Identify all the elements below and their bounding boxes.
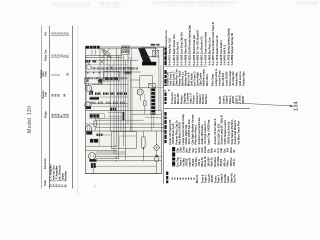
- speaker terminal box: [140, 76, 153, 88]
- svg-text:10.: 10.: [232, 149, 236, 153]
- svg-text:5-A-8767 Amp Det Coil: 5-A-8767 Amp Det Coil: [168, 38, 172, 66]
- audio coupling box: [111, 132, 136, 149]
- speaker frame bar (black): [142, 62, 156, 66]
- svg-text:Function: Function: [43, 158, 47, 169]
- resistor R2: [144, 101, 147, 106]
- svg-text:Pilot Strip: Pilot Strip: [211, 74, 215, 86]
- parts table header COILS: [164, 93, 166, 96]
- wire: [86, 130, 164, 132]
- bus wire: [90, 96, 128, 98]
- svg-text:.00025: .00025: [241, 96, 245, 104]
- svg-text:9-A-5552 10. Vol .001 Board 8: 9-A-5552 10. Vol .001 Board 8: [195, 30, 199, 66]
- wire: [113, 60, 115, 154]
- terminal block: [148, 84, 155, 88]
- bus wires: [92, 103, 128, 105]
- wire: [108, 116, 124, 118]
- wire: [86, 64, 129, 66]
- faint print-through smudge top-left: [53, 1, 319, 7]
- svg-text:34.: 34.: [66, 54, 70, 58]
- wire: [95, 50, 97, 56]
- tuning capacitor C1 arrow: [100, 60, 104, 64]
- tube V4 socket (black): [91, 163, 96, 168]
- field coil: [153, 50, 159, 57]
- short bus wires: [108, 111, 124, 113]
- power transformer T1 (black segmented winding): [150, 88, 155, 115]
- schematic top border: [85, 46, 163, 48]
- wire: [151, 115, 153, 131]
- index arrow to page number: [233, 103, 292, 106]
- svg-text:8-A-3987 Screw Drum Cond Trans: 8-A-3987 Screw Drum Cond Trans B: [211, 22, 215, 66]
- wire: [128, 57, 132, 59]
- svg-text:Grid Low Lo: Grid Low Lo: [238, 71, 242, 86]
- parts table footer header: [166, 172, 168, 176]
- svg-text:Grid: Grid: [45, 92, 47, 97]
- svg-text:Lead 25,000: Lead 25,000: [224, 71, 228, 86]
- svg-text:Res 25,000: Res 25,000: [221, 72, 225, 86]
- parts list divider rule: [163, 46, 165, 184]
- wire: [103, 49, 105, 83]
- grid cap leads: [97, 80, 99, 84]
- svg-text:Watt Watt .: Watt Watt .: [205, 73, 209, 86]
- bus wire: [93, 165, 156, 167]
- wire: [96, 160, 162, 162]
- svg-text:Model 130: Model 130: [27, 106, 33, 133]
- svg-text:Input Clip .00025 Inp: Input Clip .00025 Inp: [206, 119, 210, 144]
- svg-text:9-A-7428 Spring Spring Spring: 9-A-7428 Spring Spring Spring: [226, 28, 230, 65]
- wire: [96, 155, 162, 157]
- wire: [120, 49, 122, 131]
- wire: [145, 117, 162, 119]
- svg-text:2-A-9088 Ohm Grid 50: 2-A-9088 Ohm Grid 50: [183, 38, 187, 65]
- svg-text:5.0: 5.0: [66, 32, 70, 36]
- footer dashes: [172, 178, 173, 180]
- svg-text:Assem Trans: Assem Trans: [217, 70, 221, 86]
- wire: [109, 55, 111, 131]
- speaker label marks: [151, 44, 156, 46]
- svg-text:.001 K.: .001 K.: [232, 158, 236, 167]
- svg-text:9-A-5561 1st Bracket Cli: 9-A-5561 1st Bracket Cli: [199, 36, 203, 65]
- wire inner left: [86, 55, 88, 110]
- schematic left border wire: [85, 47, 87, 174]
- speaker assembly enclosure: [132, 47, 164, 87]
- bus wires mid: [96, 119, 144, 121]
- output transformer T2: [141, 48, 156, 57]
- svg-text:Mica 8.: Mica 8.: [195, 174, 199, 183]
- wire: [129, 60, 131, 131]
- tube V1 (24) R.F. amplifier: [85, 85, 91, 91]
- svg-text:Volts: Volts: [45, 71, 48, 77]
- svg-text:Plate Cur.: Plate Cur.: [45, 49, 48, 61]
- ganged condenser box: [84, 78, 102, 84]
- svg-text:2-A-8889 Output Spring Oh: 2-A-8889 Output Spring Oh: [230, 32, 234, 65]
- antenna label box (black): [86, 46, 100, 49]
- svg-text:1-A-6072 Input Power Osc: 1-A-6072 Input Power Osc: [172, 33, 176, 65]
- svg-text:3-A-9445 Low Audio I: 3-A-9445 Low Audio I: [219, 40, 223, 66]
- svg-text:Rectifier: Rectifier: [64, 171, 68, 181]
- svg-text:Plate: Plate: [44, 111, 48, 118]
- svg-text:Belt Bel: Belt Bel: [204, 94, 208, 104]
- svg-text:190: 190: [66, 113, 70, 118]
- svg-text:Lamp Lamp G: Lamp Lamp G: [214, 69, 218, 86]
- antenna coupling loop L1: [102, 49, 112, 58]
- coil L4 (black): [90, 97, 100, 99]
- wire: [85, 71, 141, 73]
- speaker cone (dark): [138, 48, 151, 63]
- parts table header RESISTORS: [164, 70, 166, 74]
- wire: [96, 127, 164, 129]
- wire: [86, 150, 117, 152]
- wire stub left of tables: [160, 152, 162, 172]
- transformer leads: [158, 57, 160, 111]
- rf bus wire: [86, 59, 138, 61]
- resistor R3: [142, 137, 145, 147]
- wire: [106, 55, 108, 83]
- bus wires lower left: [86, 145, 117, 147]
- i.f. transformer box T3: [104, 71, 120, 81]
- svg-text:47: 47: [94, 184, 98, 188]
- coil label (dark): [97, 134, 103, 136]
- rf bus wire: [86, 57, 123, 59]
- wire: [96, 117, 124, 119]
- wire: [96, 134, 111, 136]
- terminal bar: [123, 112, 125, 120]
- svg-text:Pointer Mic: Pointer Mic: [235, 72, 239, 86]
- tube V3 (35) I.F. amplifier: [85, 126, 92, 133]
- wire: [153, 115, 155, 128]
- bus wires right: [130, 113, 161, 115]
- tube V2 (24) detector-oscillator: [85, 102, 91, 108]
- svg-text:7-A-4780 Trans Assem Tube: 7-A-4780 Trans Assem Tube: [203, 31, 207, 65]
- oscillator coil L5 (black): [89, 114, 104, 118]
- wire: [116, 49, 118, 147]
- wire: [96, 153, 126, 155]
- schematic paper tint: [85, 46, 164, 174]
- svg-text:8-A-8474 Coil .01 Assem Low: 8-A-8474 Coil .01 Assem Low: [164, 30, 168, 65]
- rf bus wire: [86, 54, 123, 56]
- parts table header CONDENSERS: [164, 48, 166, 51]
- svg-text:Tube: Tube: [43, 179, 47, 186]
- svg-text:3-A-4800 Det Plate Con: 3-A-4800 Det Plate Con: [207, 37, 211, 65]
- wire right edge: [161, 111, 163, 174]
- svg-text:5-A-3119 25,000 Knob Spring Sp: 5-A-3119 25,000 Knob Spring Spri: [187, 25, 191, 66]
- tuning capacitor C2 arrow: [109, 66, 113, 70]
- wiring text row (light dashes): [91, 102, 96, 104]
- faint page fold line: [77, 26, 79, 196]
- parts table header (black) block E: [172, 147, 175, 151]
- wire: [86, 123, 164, 125]
- schematic bottom border: [85, 173, 162, 175]
- svg-text:Fil.: Fil.: [44, 31, 48, 35]
- wire: [130, 79, 139, 81]
- dial lamp P1: [85, 60, 90, 63]
- svg-text:9-A-7049 Audio Power W: 9-A-7049 Audio Power W: [215, 35, 219, 66]
- coil winding row L2: [91, 67, 93, 69]
- parts list section rule: [164, 65, 207, 67]
- wire: [131, 88, 133, 131]
- svg-text:134: 134: [294, 101, 300, 111]
- tube V5 (24) 2nd detector: [137, 89, 143, 95]
- junction column: [116, 146, 117, 147]
- bus wire: [92, 84, 128, 86]
- trimmer box: [124, 68, 131, 75]
- wire: [125, 60, 127, 161]
- wire: [160, 65, 162, 110]
- wiring label (dark): [111, 108, 117, 111]
- wire: [127, 49, 129, 124]
- svg-text:1-A-8481 465 8. 5: 1-A-8481 465 8. 5: [223, 44, 227, 65]
- wire: [123, 55, 125, 146]
- wire: [118, 55, 120, 158]
- parts table header PART NO: [164, 112, 166, 116]
- svg-text:8-A-5662 1st Nut 10.: 8-A-5662 1st Nut 10.: [175, 41, 179, 65]
- svg-text:6-A-1369 Low Strip Clip Shi: 6-A-1369 Low Strip Clip Shi: [180, 32, 184, 65]
- svg-text:.01 Amp Shi: .01 Amp Shi: [231, 71, 235, 86]
- resistor R1: [94, 121, 97, 127]
- antenna lead-in diagonals: [101, 49, 113, 59]
- wiring text row (dark dashes): [89, 92, 93, 94]
- svg-text:Osc Po: Osc Po: [233, 174, 237, 183]
- parts list main rule: [164, 108, 250, 110]
- wire: [96, 158, 119, 160]
- wire: [99, 118, 101, 146]
- label mark: [93, 60, 97, 62]
- wire: [91, 50, 93, 56]
- svg-text:Screw Lamp: Screw Lamp: [228, 71, 232, 86]
- svg-text:8-A-2320 Shield Term Spr: 8-A-2320 Shield Term Spr: [192, 35, 196, 66]
- svg-text:3.: 3.: [57, 73, 61, 75]
- wire: [99, 49, 101, 85]
- tube-data table column rules: [40, 26, 42, 189]
- junction dots row: [87, 72, 88, 73]
- switch label boxes: [122, 46, 130, 49]
- svg-text:Vol Mica Trans Filte: Vol Mica Trans Filte: [236, 120, 240, 144]
- wire: [96, 151, 126, 153]
- phono jack diamond: [154, 144, 160, 151]
- i.f. transformer coil L6 (black): [90, 139, 98, 143]
- tube V4 (47) output: [89, 153, 96, 160]
- wire: [156, 131, 158, 144]
- svg-text:Pointer Was: Pointer Was: [242, 71, 246, 86]
- coil winding row L3: [85, 77, 87, 79]
- pilot lamp P2: [155, 155, 158, 157]
